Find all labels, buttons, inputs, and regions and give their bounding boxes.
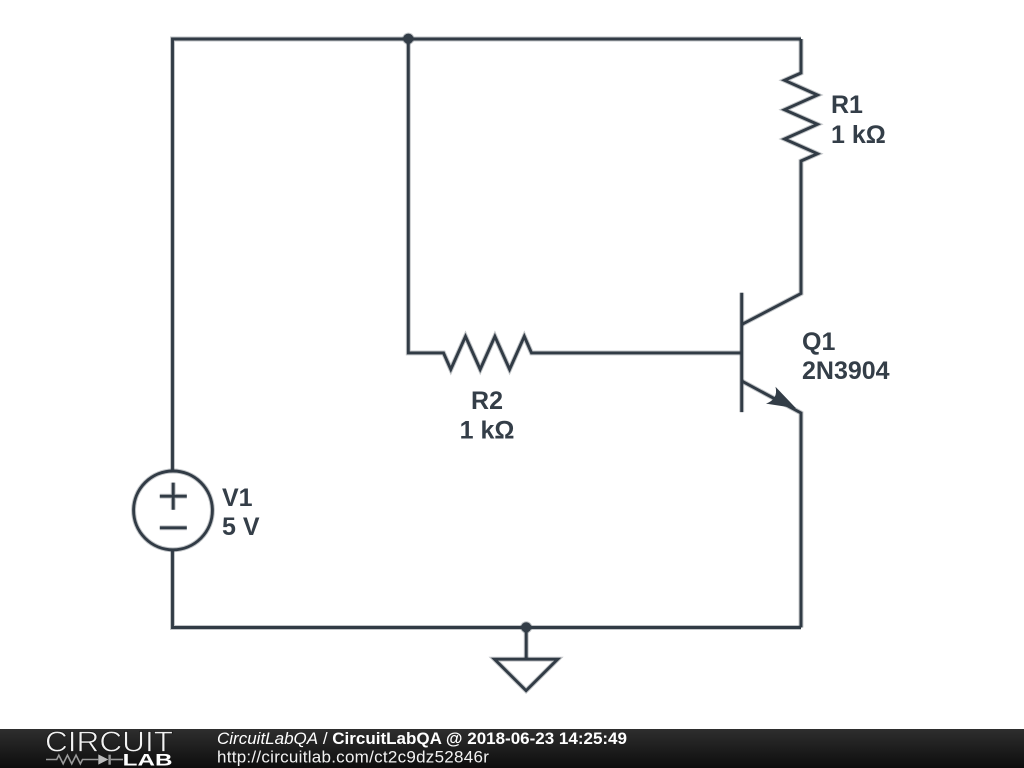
svg-text:5 V: 5 V [222,513,260,541]
svg-text:R2: R2 [471,387,503,415]
svg-text:http://circuitlab.com/ct2c9dz5: http://circuitlab.com/ct2c9dz52846r [217,748,489,767]
svg-text:V1: V1 [222,484,253,512]
svg-text:Q1: Q1 [802,328,835,356]
svg-text:1 kΩ: 1 kΩ [460,417,515,445]
svg-text:2N3904: 2N3904 [802,357,890,385]
svg-text:CircuitLabQA / CircuitLabQA @: CircuitLabQA / CircuitLabQA @ 2018-06-23… [217,729,627,748]
svg-text:1 kΩ: 1 kΩ [831,121,886,149]
svg-text:LAB: LAB [123,751,173,768]
svg-text:R1: R1 [831,91,863,119]
